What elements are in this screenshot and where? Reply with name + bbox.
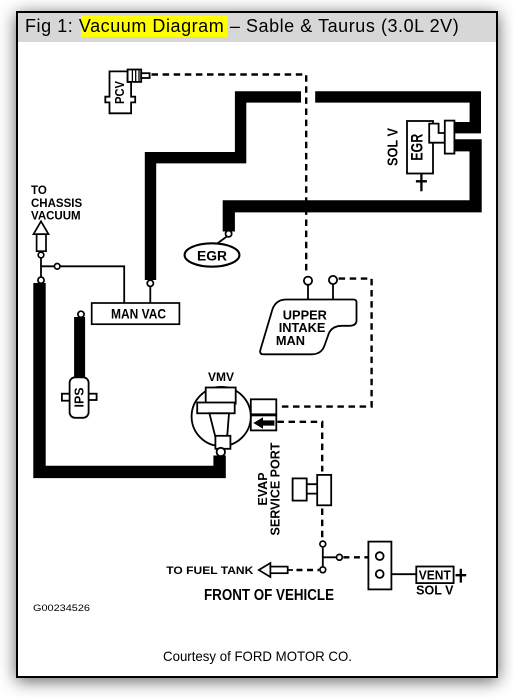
wire: evap junction solid lines (323, 548, 417, 574)
to chassis vacuum arrow (34, 221, 49, 251)
node: canister top port (376, 552, 384, 560)
node: MAN VAC left circle to IPS hose (78, 311, 84, 317)
node: fuel tank junction circle (320, 567, 326, 573)
IPS sensor (62, 377, 97, 418)
label UPPER INTAKE MAN (276, 307, 327, 348)
EGR solenoid electrical pin (+) (416, 174, 427, 192)
thick vacuum hose A: manifold to EGR sol (upper) (151, 97, 476, 280)
dashed hose VMV arrow port to EVAP service port (277, 422, 322, 541)
node: upper intake right nipple (329, 276, 337, 284)
vent sol electrical pin (+) (456, 569, 467, 583)
node: hose B end circle at EGR oval (226, 231, 232, 237)
dashed hose junction to canister ports box (343, 556, 368, 558)
dashed hose upper-intake right port to VMV top port (277, 279, 371, 407)
wire: chassis junction lines (41, 258, 150, 303)
thick hose MAN VAC to IPS (74, 317, 85, 377)
node: VMV bottom circle (217, 448, 225, 456)
EGR solenoid assembly (right) (407, 121, 454, 174)
node: canister bottom port (376, 570, 384, 578)
label TO CHASSIS VACUUM (31, 185, 82, 223)
thick vacuum hose C: chassis line to VMV (40, 283, 220, 472)
dashed hose to fuel tank junction (297, 569, 320, 571)
to fuel tank arrow (259, 563, 293, 577)
node: chassis branch circle (54, 264, 60, 270)
node: circle above fuel-tank junction (320, 541, 326, 547)
wire: upper intake nipple stems (308, 285, 333, 301)
header highlight (81, 16, 228, 37)
wire: EGR oval to hose B (215, 237, 227, 246)
upper intake manifold shape (260, 300, 356, 355)
dashed hose PCV to upper intake (node at x306) (152, 75, 307, 274)
VMV valve body (192, 387, 277, 449)
MAN VAC box (92, 303, 180, 324)
PCV valve (105, 70, 149, 114)
node: branch circle to canister box (337, 554, 343, 560)
VMV inlet arrow (black) (253, 417, 274, 429)
thick vacuum hose B: EGR port to EGR sol (lower) (229, 145, 476, 231)
node: hose A end circle at MAN VAC (147, 280, 153, 286)
header bar (18, 13, 496, 42)
canister ports box (368, 542, 391, 590)
node: upper intake left nipple (304, 277, 312, 285)
VENT SOL V box (416, 567, 453, 584)
node: chassis arrow circle (38, 252, 44, 258)
node: hose C top circle (38, 277, 44, 283)
EVAP service port fitting (293, 475, 332, 505)
EGR oval port (185, 243, 240, 266)
